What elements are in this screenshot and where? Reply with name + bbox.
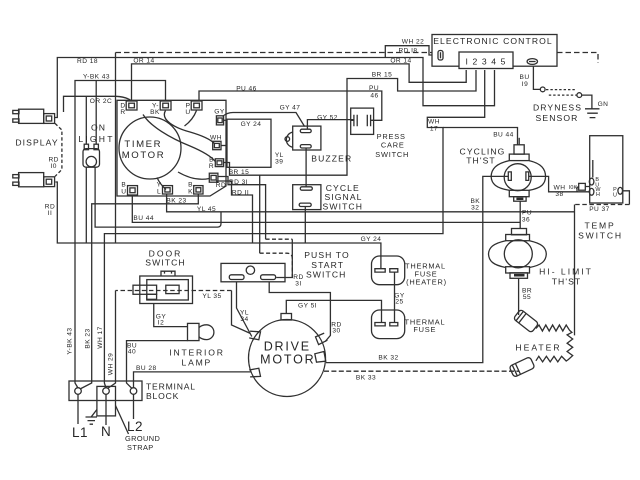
temp switch terminal WH (589, 188, 594, 195)
thermal fuse heater box (372, 256, 405, 285)
svg-text:MOTOR: MOTOR (260, 353, 315, 367)
wire GY47 timer to buzzer (223, 113, 305, 127)
dryness sensor circle 1 (540, 87, 545, 92)
wire OR2C (64, 96, 132, 112)
svg-text:BU 44: BU 44 (133, 215, 154, 222)
cycle signal terminal bottom (299, 203, 311, 206)
svg-text:SWITCH: SWITCH (375, 150, 409, 159)
svg-text:CARE: CARE (381, 141, 405, 150)
svg-text:RD II: RD II (232, 190, 249, 197)
buzzer dome (286, 132, 292, 147)
short stub WH terminal (221, 145, 226, 147)
display connector top (13, 109, 55, 123)
timer terminal Y-BK (160, 101, 171, 110)
drive motor circle (249, 320, 326, 397)
svg-text:BR 15: BR 15 (229, 169, 250, 176)
timer terminal YL (163, 186, 173, 194)
press care terminal right (367, 115, 373, 127)
svg-text:SWITCH: SWITCH (323, 202, 364, 212)
svg-text:GY: GY (214, 109, 225, 116)
wire Y-BK43 timer to terminal L1 (75, 81, 166, 389)
svg-text:B: B (188, 182, 193, 189)
svg-text:U: U (121, 189, 126, 196)
cycle signal terminal top (300, 187, 312, 190)
timer terminal WH (213, 141, 221, 149)
buzzer terminal bottom (300, 145, 311, 148)
wire BR15 timer to control t2 (224, 70, 476, 175)
on light body (83, 149, 100, 168)
svg-text:30: 30 (332, 328, 340, 335)
svg-text:BUZZER: BUZZER (311, 153, 352, 163)
svg-text:34: 34 (240, 316, 248, 323)
wire BU44 long bus (132, 196, 520, 223)
temp switch box (590, 136, 623, 203)
svg-text:SENSOR: SENSOR (536, 113, 579, 123)
ground strap pointer (116, 406, 129, 435)
timer terminal PU (191, 101, 202, 110)
wire BU40 lamp to terminal block (127, 341, 188, 388)
cycle signal switch box (293, 185, 321, 210)
heater connector top (513, 309, 539, 333)
timer motor box (117, 100, 226, 196)
timer terminal RD (209, 173, 218, 182)
timer terminal BU (128, 186, 138, 195)
svg-text:II: II (48, 210, 53, 217)
svg-text:39: 39 (275, 158, 283, 165)
timer motor circle (119, 117, 181, 179)
hi-limit thst circle (504, 240, 532, 268)
terminal L2 (130, 388, 137, 395)
wire YL34 push start to drive motor (237, 282, 252, 337)
cycling thst bottom tab (509, 190, 529, 201)
svg-text:H: H (596, 192, 600, 198)
svg-text:I9: I9 (522, 81, 528, 88)
svg-text:R: R (209, 163, 214, 170)
timer terminal BK (194, 186, 203, 194)
svg-text:L: L (157, 189, 161, 196)
timer cam curve 2 (143, 115, 215, 162)
wire YL35 door switch to drive motor (232, 291, 251, 334)
electronic control box (432, 35, 557, 67)
wire BU44 into cycling top (518, 138, 520, 145)
cycling thst contact bars (508, 172, 528, 181)
push to start button circle (246, 266, 254, 274)
timer cam curve 3 (185, 111, 197, 127)
wire RD11 timer to bus (216, 181, 253, 243)
svg-text:BU 44: BU 44 (493, 132, 514, 139)
wire lamp branch to bus (85, 167, 87, 243)
svg-text:SIGNAL: SIGNAL (324, 192, 362, 202)
svg-text:RD 3I: RD 3I (229, 179, 248, 186)
resistor 10K (577, 183, 589, 191)
svg-text:32: 32 (471, 205, 479, 212)
svg-text:17: 17 (430, 125, 438, 132)
svg-text:OR 2C: OR 2C (90, 98, 112, 105)
thermal fuse heater terminals (375, 269, 398, 272)
svg-text:DRYNESS: DRYNESS (533, 103, 582, 113)
wire push start outline riser (259, 175, 261, 253)
svg-text:25: 25 (395, 298, 403, 305)
svg-text:46: 46 (370, 93, 378, 100)
svg-text:RD 18: RD 18 (77, 58, 98, 65)
svg-text:I 2 3 4 5: I 2 3 4 5 (466, 56, 507, 66)
wire BR55 hi-limit to heater (518, 278, 520, 315)
svg-text:LAMP: LAMP (181, 358, 212, 368)
wire RD11 GY24 long bus to thermal fuse (56, 182, 381, 269)
terminal block (69, 381, 142, 401)
ground strap box (97, 386, 116, 416)
svg-text:FUSE: FUSE (413, 325, 436, 334)
timer cam curve 5 (157, 178, 166, 190)
hi-limit thst bottom tab (506, 267, 530, 279)
wire WH22 (385, 46, 438, 58)
svg-text:Y-BK 43: Y-BK 43 (83, 74, 110, 81)
wire WH29 door switch to terminal N (116, 290, 232, 292)
svg-text:WH: WH (210, 135, 222, 142)
svg-text:L2: L2 (127, 419, 143, 434)
hi-limit thst top tab (506, 229, 530, 241)
svg-text:TIMER: TIMER (124, 139, 162, 150)
cycling thst top tab (509, 145, 529, 161)
svg-text:HI- LIMIT: HI- LIMIT (539, 267, 593, 277)
svg-text:DRIVE: DRIVE (264, 340, 311, 354)
svg-text:Y: Y (157, 182, 162, 189)
ground symbol at strap (86, 410, 98, 425)
svg-text:I0: I0 (50, 163, 56, 170)
wire cycle signal switch to bus (304, 206, 306, 243)
press care switch box (351, 108, 374, 134)
svg-text:LIGHT: LIGHT (78, 134, 114, 144)
wire PU46 timer to press care switch (199, 91, 382, 120)
svg-text:OR 14: OR 14 (133, 58, 154, 65)
svg-text:PUSH TO: PUSH TO (304, 250, 350, 260)
timer terminal BR (215, 159, 223, 167)
door switch outer box (140, 276, 193, 304)
thermal fuse box (372, 310, 405, 339)
svg-text:INTERIOR: INTERIOR (169, 348, 224, 358)
svg-text:I2: I2 (158, 320, 164, 327)
temp switch terminal BU (589, 178, 594, 185)
drive motor top terminal (281, 314, 292, 321)
wire GY stub timer to GY24 box (224, 119, 227, 121)
svg-text:R: R (120, 109, 125, 116)
buzzer body (293, 126, 321, 150)
on light bulb (86, 156, 96, 166)
svg-text:WH: WH (428, 118, 440, 125)
svg-text:36: 36 (522, 216, 530, 223)
svg-text:PU 46: PU 46 (236, 85, 257, 92)
svg-text:OR 14: OR 14 (390, 58, 411, 65)
svg-text:START: START (311, 260, 344, 270)
svg-text:PU 37: PU 37 (589, 206, 610, 213)
svg-text:55: 55 (523, 294, 531, 301)
wire L2 lead (133, 394, 135, 419)
svg-text:U: U (185, 109, 190, 116)
terminal N (103, 388, 110, 395)
svg-text:BK 23: BK 23 (85, 328, 92, 348)
svg-text:(HEATER): (HEATER) (406, 278, 447, 287)
svg-text:K: K (188, 189, 193, 196)
svg-text:STRAP: STRAP (127, 443, 154, 452)
on light wire up right (95, 81, 97, 145)
wire L1 lead (77, 394, 79, 424)
ground symbol GN (585, 109, 600, 118)
svg-text:TEMP: TEMP (584, 221, 615, 231)
wire cycling thst feed (443, 128, 518, 145)
dryness sensor contact gap (546, 90, 577, 96)
dryness sensor circle 2 (577, 93, 582, 98)
wire GY51 motor to thermal fuse (286, 300, 381, 322)
svg-text:L1: L1 (72, 425, 88, 440)
electronic control plug (438, 51, 443, 61)
svg-text:TH'ST: TH'ST (552, 276, 582, 286)
svg-text:BR 15: BR 15 (372, 72, 393, 79)
svg-text:TH'ST: TH'ST (466, 155, 496, 165)
door switch middle contact (166, 285, 179, 293)
interior lamp base (188, 323, 200, 340)
svg-text:ON: ON (91, 122, 106, 132)
svg-text:U: U (613, 192, 617, 198)
svg-text:HEATER: HEATER (515, 343, 561, 353)
console border left (115, 53, 117, 244)
wire GY52 buzzer to press care (307, 120, 354, 129)
wire OR14 to control t1 (132, 64, 467, 101)
svg-text:MOTOR: MOTOR (122, 150, 166, 161)
svg-text:BU 28: BU 28 (136, 365, 157, 372)
svg-text:GN: GN (598, 101, 609, 108)
svg-text:38: 38 (555, 191, 563, 198)
wire RD18 display to control t4 (55, 58, 495, 118)
wire N lead (105, 394, 107, 425)
temp switch internal stub (592, 160, 594, 178)
temp switch terminal PU (618, 187, 623, 194)
wire BK33 motor to heater (324, 370, 519, 372)
wire PU37 temp switch to heater (623, 191, 630, 205)
svg-text:YL 45: YL 45 (197, 206, 216, 213)
cycling thst circle (504, 164, 531, 191)
drive motor tab right bottom (315, 352, 326, 363)
wire GY12 door switch to interior lamp (154, 304, 188, 327)
svg-text:GY 52: GY 52 (317, 114, 338, 121)
wire to ground GN (582, 95, 592, 108)
wire RD30 push start to drive motor (269, 282, 330, 342)
svg-text:SWITCH: SWITCH (145, 258, 186, 268)
heater connector bottom (509, 357, 535, 378)
svg-text:B: B (121, 182, 126, 189)
wire YL39 buzzer to cycle signal switch (305, 148, 307, 187)
timer terminal DR (126, 101, 137, 110)
wire BK32 motor to cycling thst (326, 176, 508, 362)
svg-text:GY 5I: GY 5I (298, 303, 317, 310)
wire GY25 fuse to fuse (394, 272, 396, 322)
svg-text:BK 33: BK 33 (356, 375, 376, 382)
svg-text:WH 29: WH 29 (107, 353, 114, 375)
svg-text:GY 24: GY 24 (361, 236, 382, 243)
electronic control connector oval (527, 59, 537, 65)
wire WH17 control t3 to terminal N (104, 70, 484, 388)
svg-text:TERMINAL: TERMINAL (146, 382, 196, 392)
wire BK23 timer to terminal L1 (80, 195, 198, 390)
svg-text:WH 17: WH 17 (97, 326, 104, 348)
electronic control terminal strip 1 2 3 4 5 (459, 52, 513, 69)
svg-text:RD: RD (216, 182, 226, 189)
hi-limit thst wings (489, 241, 547, 268)
display module boundary (55, 123, 62, 176)
door switch left plug (133, 285, 157, 299)
drive motor tab right top (316, 333, 328, 345)
wire BU19 control to dryness sensor (533, 64, 540, 90)
svg-text:WH 22: WH 22 (402, 39, 424, 46)
svg-text:SWITCH: SWITCH (578, 231, 623, 241)
press care terminal left (351, 115, 357, 127)
cycling thst wings (491, 161, 545, 191)
timer terminal GY (216, 116, 223, 125)
svg-text:GY 24: GY 24 (241, 121, 262, 128)
svg-text:BK 32: BK 32 (378, 355, 398, 362)
wire PU36 cycling to hi-limit (519, 201, 521, 228)
svg-text:N: N (101, 424, 111, 439)
svg-text:YL 35: YL 35 (202, 293, 221, 300)
svg-text:GROUND: GROUND (125, 434, 160, 443)
thermal fuse terminals (375, 323, 398, 326)
wire lamp branch to YL45 (95, 167, 221, 227)
buzzer terminal top (300, 129, 311, 132)
interior lamp bulb (199, 325, 214, 340)
svg-text:40: 40 (128, 348, 136, 355)
door switch inner box (147, 280, 189, 300)
svg-text:RD I8: RD I8 (398, 48, 417, 55)
svg-text:3I: 3I (295, 281, 301, 288)
timer cam curve 4 (178, 172, 209, 179)
wire BU28 terminal L2 to motor (134, 372, 251, 388)
drive motor tab left top (249, 331, 260, 340)
display connector bottom (13, 173, 55, 187)
svg-text:Y-BK 43: Y-BK 43 (67, 327, 74, 354)
svg-text:PU: PU (369, 85, 379, 92)
svg-text:SWITCH: SWITCH (306, 269, 347, 279)
drive motor tab left bottom (249, 368, 260, 377)
svg-text:DISPLAY: DISPLAY (15, 137, 58, 147)
svg-text:I0K: I0K (569, 185, 578, 191)
on light wire up left (85, 96, 87, 144)
wire cycling thst to temp switch WH38 (529, 176, 590, 191)
svg-text:BU: BU (519, 74, 529, 81)
svg-text:ELECTRONIC CONTROL: ELECTRONIC CONTROL (433, 36, 553, 46)
GY24 connector box (227, 119, 271, 167)
wire RD31 timer to push to start switch (218, 177, 266, 240)
push to start switch box (221, 263, 285, 281)
timer cam curve 1 (164, 111, 214, 144)
terminal L1 (75, 388, 82, 395)
door switch top tab (161, 271, 175, 276)
svg-text:BK: BK (150, 109, 160, 116)
push to start terminal left (229, 275, 244, 280)
svg-text:BLOCK: BLOCK (146, 391, 179, 401)
buzzer dome circle (285, 137, 290, 142)
console border top (dashed) (116, 53, 599, 64)
svg-text:BK 23: BK 23 (166, 198, 186, 205)
wire YL45 long bus (167, 195, 575, 212)
on light terminals (84, 144, 98, 150)
heater coil (536, 325, 573, 362)
push to start terminal right (261, 275, 276, 280)
svg-text:GY 47: GY 47 (280, 105, 301, 112)
